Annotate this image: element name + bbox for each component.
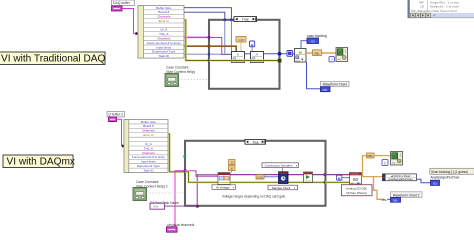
svg-text:Voltage ranges depending on DA: Voltage ranges depending on DAQ card gai… <box>222 194 286 198</box>
svg-text:DBL: DBL <box>367 154 373 158</box>
svg-text:Waveform Chart 2: Waveform Chart 2 <box>393 193 420 197</box>
svg-text:NChan NSamp: NChan NSamp <box>346 191 367 195</box>
svg-text:AI: AI <box>256 53 259 57</box>
svg-text:I/O ▸: I/O ▸ <box>153 205 159 209</box>
svg-text:AI: AI <box>237 53 240 57</box>
svg-text:10: 10 <box>230 167 233 171</box>
svg-text:▦: ▦ <box>251 43 254 47</box>
svg-text:Error In: Error In <box>159 19 170 23</box>
svg-text:Analog 2D DBL: Analog 2D DBL <box>346 186 368 190</box>
svg-text:▦: ▦ <box>338 176 341 180</box>
svg-text:AnalSampsPerChan: AnalSampsPerChan <box>431 176 460 180</box>
svg-text:1.00: 1.00 <box>238 38 244 42</box>
svg-text:DBL: DBL <box>382 198 388 202</box>
svg-text:-10: -10 <box>230 161 234 165</box>
svg-text:Scan backlog [.] (1 guess): Scan backlog [.] (1 guess) <box>431 170 468 174</box>
svg-text:Case Constant: Case Constant <box>136 180 158 184</box>
svg-text:?: ? <box>331 58 333 62</box>
svg-text:Buffer Size: Buffer Size <box>141 120 156 124</box>
svg-text:Sample Clock: Sample Clock <box>272 186 291 190</box>
svg-text:✖: ✖ <box>301 58 304 62</box>
svg-text:I32: I32 <box>311 40 316 44</box>
svg-text:True: True <box>242 18 249 22</box>
svg-text:scan backlog: scan backlog <box>307 34 327 38</box>
svg-text:▼: ▼ <box>295 165 297 168</box>
svg-text:60: 60 <box>353 177 359 182</box>
svg-text:Experiment Type: Experiment Type <box>137 164 160 168</box>
svg-text:DAQ buffer: DAQ buffer <box>113 1 131 5</box>
svg-text:2: 2 <box>384 162 386 166</box>
svg-text:VI with Traditional DAQ: VI with Traditional DAQ <box>1 54 105 65</box>
svg-text:▼: ▼ <box>232 187 234 190</box>
svg-text:▼: ▼ <box>293 187 295 190</box>
svg-text:DBL: DBL <box>393 198 399 202</box>
svg-text:Waveform Chart: Waveform Chart <box>323 83 347 87</box>
svg-text:Channels: Channels <box>142 129 155 133</box>
svg-text:Channels: Channels <box>142 151 155 155</box>
svg-text:DBL: DBL <box>314 51 320 55</box>
svg-text:Input limits: Input limits <box>141 160 156 164</box>
svg-text:True: True <box>252 140 259 144</box>
svg-text:Continuous Samples: Continuous Samples <box>265 164 293 168</box>
svg-text:Task ID: Task ID <box>159 54 170 58</box>
svg-text:1000: 1000 <box>257 175 263 179</box>
svg-text:AI Voltage: AI Voltage <box>216 186 230 190</box>
svg-text:Force element # in array: Force element # in array <box>132 155 165 159</box>
svg-text:I32: I32 <box>433 181 437 185</box>
svg-text:UI_A: UI_A <box>145 142 153 146</box>
svg-text:Error In: Error In <box>143 133 153 137</box>
svg-text:DBL: DBL <box>323 88 329 92</box>
svg-text:TxE_A: TxE_A <box>144 146 154 150</box>
svg-text:Case Constant: Case Constant <box>166 66 188 70</box>
svg-text:physical channels: physical channels <box>168 223 195 227</box>
svg-text:VI with DAQmx: VI with DAQmx <box>7 157 75 168</box>
svg-text:WF (Waveform Data Type) includ: WF (Waveform Data Type) includ <box>411 9 457 13</box>
svg-text:AI: AI <box>299 50 302 54</box>
svg-text:Q buffer 2: Q buffer 2 <box>108 113 123 117</box>
svg-text:AnalSamplePerChan: AnalSamplePerChan <box>388 177 413 181</box>
svg-text:Task ID: Task ID <box>143 168 154 172</box>
svg-text:Board #: Board # <box>143 124 154 128</box>
